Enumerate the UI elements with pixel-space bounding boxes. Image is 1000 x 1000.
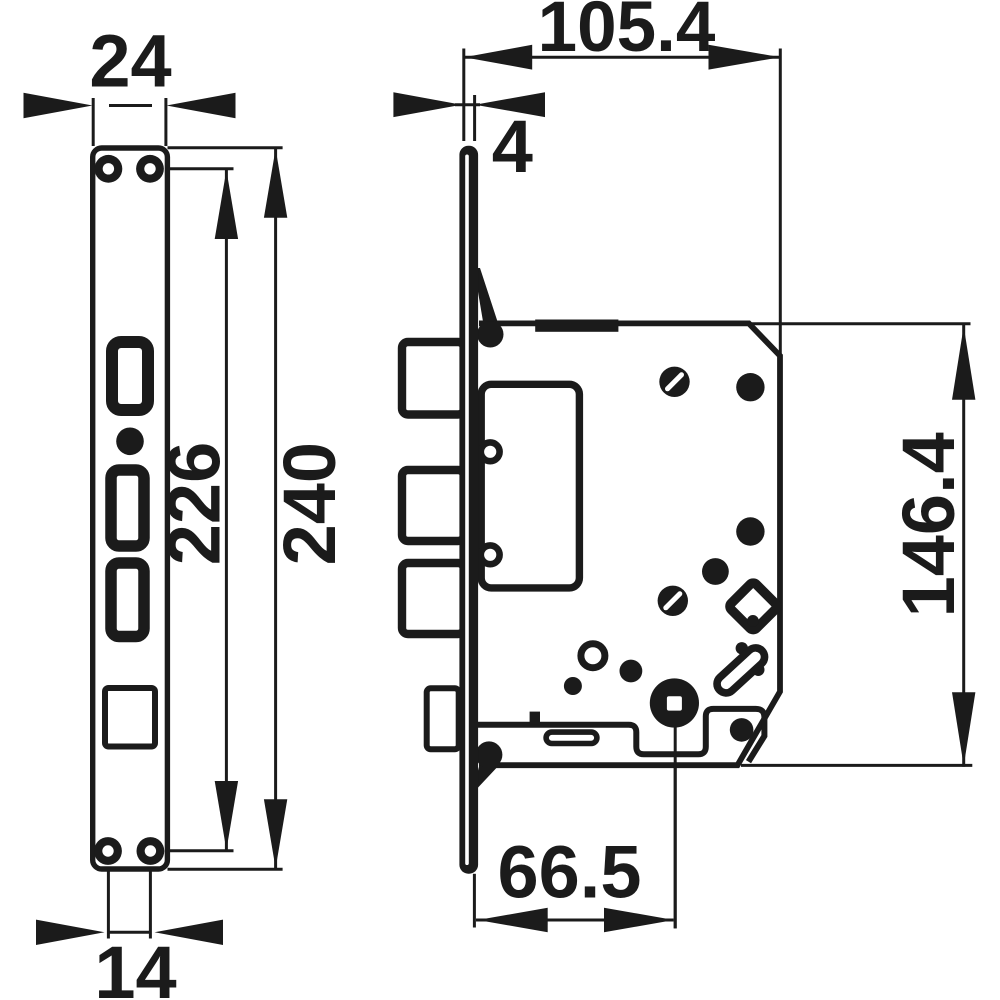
dim 240: line (274, 148, 277, 869)
svg-text:146.4: 146.4 (887, 432, 970, 617)
diamond detent bump (747, 615, 759, 627)
dot 3 (702, 558, 729, 585)
faceplate slot 3 (111, 563, 144, 637)
dim 66.5: extension lines (473, 874, 476, 928)
bottom auxiliary wedge (471, 767, 497, 795)
dim 66.5: line (476, 919, 674, 922)
dim 14: left arrow (36, 920, 105, 945)
screw hole top-right (136, 155, 164, 183)
dim 226: line (225, 169, 228, 851)
rivet ring 1 (481, 442, 500, 461)
big ring (581, 644, 605, 668)
svg-text:24: 24 (89, 20, 171, 103)
faceplate slot 4 (latch opening) (105, 688, 155, 747)
oblong bump upper (736, 642, 748, 654)
dim 24: right arrow (167, 93, 236, 118)
screw hole bottom-right (137, 837, 165, 865)
dot 7 (bottom-left pivot) (476, 741, 503, 768)
dim 146.4: extension lines (751, 322, 971, 325)
band tab (530, 712, 540, 725)
dim 24: left arrow (24, 93, 93, 118)
dot 2 (736, 517, 764, 545)
svg-text:240: 240 (268, 442, 351, 565)
faceplate dot (116, 428, 144, 456)
dim 66.5: right arrow (604, 908, 674, 933)
bolt box 3 (402, 563, 464, 634)
dim 240: extension lines (168, 146, 283, 149)
oblong (cylinder cam) (713, 644, 768, 696)
bottom band path (478, 709, 765, 762)
inner cutout rounded rect (481, 384, 579, 588)
dim 105.4: extension lines (462, 49, 465, 142)
dim 105.4: right arrow (709, 45, 781, 70)
latch box 4 (427, 688, 459, 749)
faceplate outline (93, 148, 168, 869)
dim 4: right arrow (475, 92, 545, 117)
screw hole bottom-left (94, 837, 122, 865)
dot 1 (736, 373, 764, 401)
dim 14: extension lines (107, 851, 110, 939)
dim 24: extension lines (92, 98, 95, 146)
dim 24: stub line (109, 104, 152, 107)
screw head 2 (658, 586, 688, 616)
top edge thick segment (535, 320, 618, 332)
dot 6 (foot hole) (730, 718, 754, 742)
dim 4: stub (455, 103, 480, 106)
dim 14: line (108, 931, 150, 934)
svg-text:14: 14 (94, 931, 176, 1000)
band pill slot (546, 732, 597, 743)
dim 226: bottom arrow (215, 781, 238, 850)
faceplate side bar (459, 146, 478, 874)
lock case outline (479, 323, 780, 765)
top pivot blob (477, 321, 503, 347)
dot 5 (564, 677, 582, 695)
dim 4: left arrow (393, 92, 461, 117)
rivet ring 2 (481, 545, 500, 564)
dim 240: top arrow (264, 149, 287, 218)
dim 105.4: line (464, 56, 780, 59)
follower hub (650, 678, 699, 727)
screw hole top-left (95, 155, 123, 183)
screw head 1 (659, 367, 689, 397)
diamond (spindle square) (728, 581, 778, 631)
faceplate slot 1 (112, 342, 148, 410)
dim 105.4: left arrow (464, 45, 532, 70)
dim 146.4: line (962, 325, 965, 767)
follower leader line (674, 703, 677, 928)
svg-text:4: 4 (492, 105, 533, 188)
dim 66.5: left arrow (478, 908, 548, 933)
dot 4 (620, 660, 643, 683)
svg-text:66.5: 66.5 (497, 831, 641, 914)
bolt box 2 (402, 470, 464, 541)
dim 14: right arrow (155, 920, 224, 945)
top auxiliary wedge (474, 268, 498, 322)
dim 146.4: top arrow (952, 326, 975, 400)
dim 226: extension lines (157, 167, 234, 170)
bolt box 1 (402, 342, 464, 415)
dim 226: top arrow (215, 170, 238, 239)
oblong bump lower (752, 664, 764, 676)
dim 4: extension line (473, 95, 476, 141)
dim 240: bottom arrow (264, 799, 287, 868)
dim 146.4: bottom arrow (952, 692, 975, 766)
faceplate slot 2 (111, 470, 144, 546)
svg-text:105.4: 105.4 (538, 0, 716, 67)
